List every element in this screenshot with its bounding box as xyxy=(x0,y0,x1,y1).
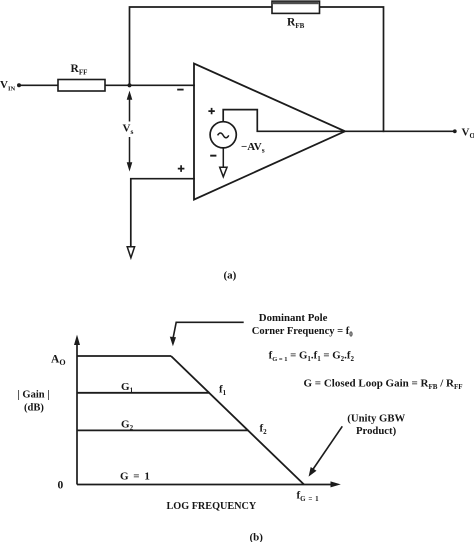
minus input label xyxy=(177,89,183,91)
wire feedback loop xyxy=(130,7,384,131)
svg-text:(b): (b) xyxy=(250,532,264,542)
svg-text:(dB): (dB) xyxy=(24,403,44,414)
wire output xyxy=(345,130,455,132)
source U2 dependent source xyxy=(210,122,236,148)
svg-text:Corner Frequency = f0: Corner Frequency = f0 xyxy=(252,326,353,339)
node input junction xyxy=(127,83,131,87)
svg-text:| Gain |: | Gain | xyxy=(18,390,50,401)
unity GBW arrow xyxy=(309,426,343,476)
svg-text:Dominant Pole: Dominant Pole xyxy=(259,312,328,324)
svg-text:LOG FREQUENCY: LOG FREQUENCY xyxy=(167,501,257,512)
svg-text:G = Closed Loop Gain = RFB / R: G = Closed Loop Gain = RFB / RFF xyxy=(304,378,463,392)
plus input label xyxy=(178,165,185,172)
svg-text:(Unity GBW: (Unity GBW xyxy=(347,413,405,425)
svg-text:Product): Product) xyxy=(356,425,397,437)
minus sign of source xyxy=(210,155,216,157)
gain curve flat segment xyxy=(77,355,171,357)
plus sign of source xyxy=(208,108,214,114)
line G2 level xyxy=(77,429,249,431)
x axis xyxy=(77,481,341,487)
svg-text:0: 0 xyxy=(58,480,64,492)
wire source bottom arrow xyxy=(222,148,224,168)
resistor RFB xyxy=(272,1,320,30)
wire Rff to inverting input xyxy=(105,84,194,86)
node Vo terminal xyxy=(453,127,474,141)
line G1 level xyxy=(77,392,210,394)
svg-text:−AVs: −AVs xyxy=(241,141,265,155)
svg-text:G = 1: G = 1 xyxy=(120,471,151,483)
ground xyxy=(127,247,134,258)
node Vs arrow bottom xyxy=(127,137,133,172)
wire non-inverting input xyxy=(131,179,194,247)
y axis xyxy=(74,335,80,485)
wire source output to apex xyxy=(223,110,345,132)
resistor RFF xyxy=(58,63,105,91)
svg-text:(a): (a) xyxy=(224,270,237,282)
wire input from Vin terminal xyxy=(21,84,59,86)
gain curve slope segment xyxy=(171,356,304,485)
node Vs arrow top xyxy=(127,91,133,122)
op-amp U1 xyxy=(194,64,345,200)
node Vin terminal xyxy=(0,79,21,93)
dominant pole arrow xyxy=(170,322,244,346)
